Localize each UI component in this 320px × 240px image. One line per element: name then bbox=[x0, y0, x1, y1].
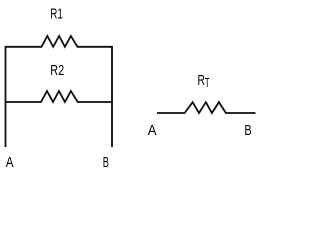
svg-text:B: B bbox=[244, 122, 251, 139]
svg-text:R2: R2 bbox=[50, 62, 64, 79]
svg-text:T: T bbox=[205, 76, 210, 90]
svg-text:R: R bbox=[198, 72, 206, 89]
svg-text:A: A bbox=[6, 154, 14, 171]
svg-text:R1: R1 bbox=[50, 6, 63, 23]
svg-text:A: A bbox=[148, 122, 157, 139]
svg-text:B: B bbox=[103, 154, 109, 171]
